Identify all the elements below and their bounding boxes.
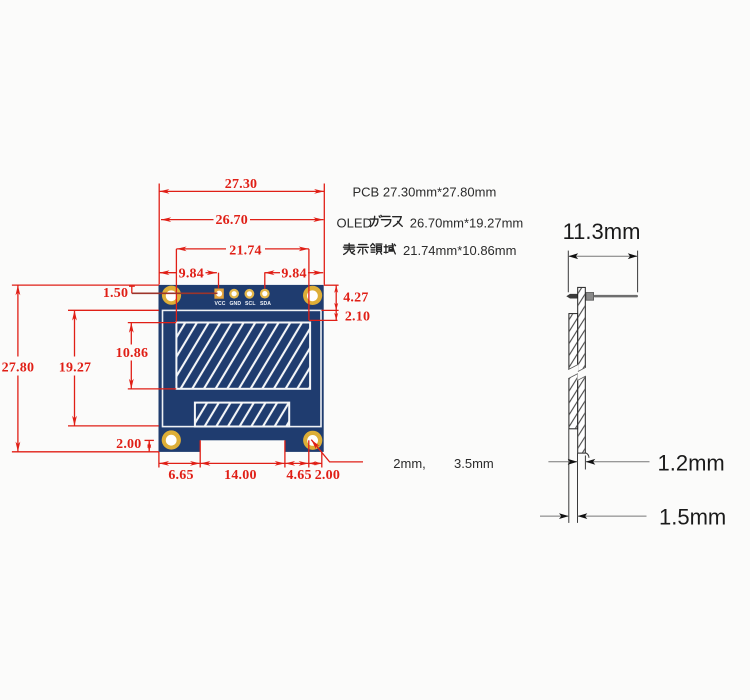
dim 1.2mm arrows xyxy=(548,461,577,463)
extension line right of PCB top xyxy=(323,184,325,285)
leader to bottom-right hole xyxy=(311,440,363,462)
ext 10.86 bottom xyxy=(128,388,176,390)
dim 6.65 xyxy=(159,462,200,464)
ext below glass left xyxy=(568,429,570,523)
dim 9.84 left xyxy=(159,272,177,274)
svg-text:21.74: 21.74 xyxy=(229,243,262,258)
dim 26.70 line xyxy=(161,219,214,221)
svg-text:2.00: 2.00 xyxy=(116,437,141,452)
svg-text:27.80: 27.80 xyxy=(2,361,35,376)
dim 2.00 bottom-left xyxy=(145,439,154,441)
dim 19.27 vertical xyxy=(74,310,76,356)
mounting hole bottom-left xyxy=(162,430,181,449)
pin extending right xyxy=(594,295,638,298)
leader 9.84 right to SDA xyxy=(264,273,266,289)
ext 10.86 top xyxy=(128,322,176,324)
secondary display row (hatched) xyxy=(195,403,289,427)
svg-text:3.5mm: 3.5mm xyxy=(454,456,494,471)
svg-text:2mm,: 2mm, xyxy=(393,456,426,471)
dim 4.65 xyxy=(285,462,309,464)
dim 27.80 vertical xyxy=(17,285,19,356)
dim 2.00 bottom-right xyxy=(309,462,322,464)
side ext line left xyxy=(567,251,569,293)
break mark xyxy=(568,364,587,380)
svg-text:2.10: 2.10 xyxy=(345,310,370,325)
side dim 11.3 line xyxy=(568,255,637,257)
svg-text:27.30: 27.30 xyxy=(225,177,258,192)
svg-text:1.2mm: 1.2mm xyxy=(658,450,725,475)
svg-text:19.27: 19.27 xyxy=(59,360,92,375)
svg-text:4.27: 4.27 xyxy=(343,291,368,306)
ext 27.80 bottom xyxy=(12,451,159,453)
dim 27.30 line xyxy=(159,190,324,192)
svg-text:PCB 27.30mm*27.80mm: PCB 27.30mm*27.80mm xyxy=(353,184,497,199)
bottom chain ext lines xyxy=(158,452,160,468)
svg-text:1.50: 1.50 xyxy=(103,286,128,301)
svg-text:GND: GND xyxy=(229,301,241,307)
ext 19.27 top xyxy=(68,309,159,311)
svg-text:11.3mm: 11.3mm xyxy=(563,219,641,244)
dim 1.50 tick xyxy=(129,285,135,287)
ext 27.80 top xyxy=(12,284,159,286)
svg-text:21.74mm*10.86mm: 21.74mm*10.86mm xyxy=(403,243,516,258)
katakana GA-RA-SU (glass) xyxy=(370,215,402,226)
OLED glass outline xyxy=(163,310,322,426)
dim 10.86 vertical xyxy=(130,323,132,345)
side ext line right xyxy=(637,251,639,293)
extension line left of PCB top xyxy=(158,184,160,285)
dim 21.74 line xyxy=(176,248,226,250)
tick pcb right xyxy=(584,456,586,470)
leader 9.84 left to VCC xyxy=(218,273,220,289)
display active area (hatched) xyxy=(176,323,310,389)
svg-text:1.5mm: 1.5mm xyxy=(659,505,726,530)
svg-text:14.00: 14.00 xyxy=(224,468,257,483)
dim 1.5mm arrows xyxy=(540,515,569,517)
pad SCL xyxy=(245,289,255,299)
svg-text:6.65: 6.65 xyxy=(168,468,193,483)
svg-text:9.84: 9.84 xyxy=(281,266,306,281)
svg-text:9.84: 9.84 xyxy=(179,266,204,281)
ext below glass right / pcb left xyxy=(577,453,579,523)
ext 21.74 left xyxy=(175,249,177,322)
dim 9.84 right xyxy=(264,272,280,274)
mounting hole bottom-right xyxy=(303,431,322,450)
svg-text:10.86: 10.86 xyxy=(116,346,149,361)
side glass strip (hatched) xyxy=(569,314,578,429)
side pcb bottom hook xyxy=(586,453,589,458)
svg-text:SCL: SCL xyxy=(245,301,256,307)
side PCB strip (hatched) xyxy=(578,287,586,453)
mounting hole top-left xyxy=(162,286,181,305)
svg-text:26.70mm*19.27mm: 26.70mm*19.27mm xyxy=(410,216,523,231)
PCB board xyxy=(159,285,324,452)
ext 21.74 right xyxy=(308,249,310,320)
mounting hole top-right xyxy=(303,286,322,305)
ext 19.27 bottom xyxy=(68,425,159,427)
leader 1.50 (dark red) xyxy=(132,292,218,294)
svg-text:SDA: SDA xyxy=(260,301,271,307)
dim 4.27 bracket xyxy=(324,284,339,286)
svg-text:2.00: 2.00 xyxy=(315,468,340,483)
dim 14.00 xyxy=(200,462,285,464)
pad SDA xyxy=(260,289,270,299)
svg-text:OLED: OLED xyxy=(337,216,372,231)
pad GND xyxy=(229,289,239,299)
bottom edge notch xyxy=(200,440,285,452)
pad VCC (square) xyxy=(214,289,223,299)
dim 2.10 bracket xyxy=(335,310,337,320)
kanji HYOUJI-RYOUIKI (display area) xyxy=(343,243,395,254)
svg-text:VCC: VCC xyxy=(214,301,225,307)
svg-text:4.65: 4.65 xyxy=(286,468,311,483)
svg-text:26.70: 26.70 xyxy=(215,213,248,228)
pin header block xyxy=(586,293,594,301)
pin tip left xyxy=(566,294,578,299)
